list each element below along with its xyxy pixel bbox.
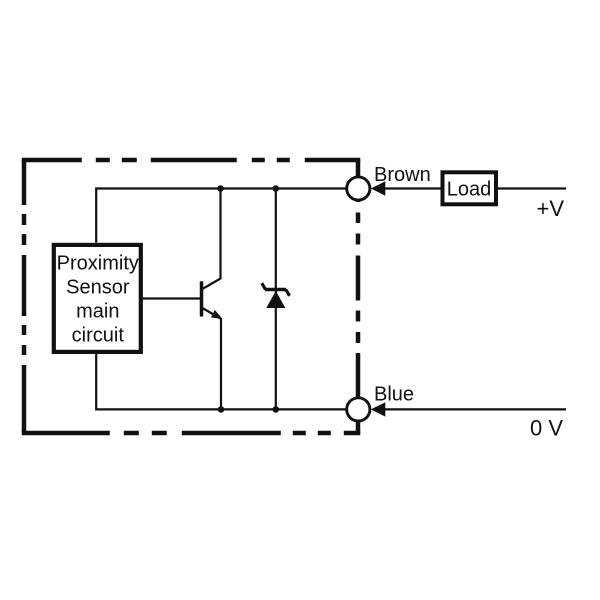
sensor boundary top side: [22, 158, 361, 163]
proximity sensor main circuit box: [54, 245, 141, 352]
transistor Q1 emitter: [202, 308, 222, 410]
wire: box bottom to 0V rail: [96, 354, 347, 410]
arrow into Blue terminal: [371, 402, 386, 416]
svg-text:Blue: Blue: [374, 384, 414, 406]
zener diode cathode bar: [265, 288, 286, 292]
svg-text:Proximity: Proximity: [57, 252, 139, 274]
junction dot bottom emitter: [218, 406, 225, 413]
transistor Q1 base bar: [200, 281, 204, 316]
zener diode cathode left tick: [262, 283, 266, 289]
svg-text:Sensor: Sensor: [66, 276, 130, 298]
svg-text:+V: +V: [537, 196, 565, 221]
svg-text:circuit: circuit: [72, 325, 125, 347]
terminal Brown: [347, 177, 370, 200]
wire: base of transistor: [142, 297, 202, 299]
svg-text:Load: Load: [447, 178, 492, 200]
svg-text:0 V: 0 V: [530, 416, 563, 441]
wire: +V to Load: [498, 187, 566, 189]
junction dot top collector: [217, 185, 224, 192]
arrow into Brown terminal: [371, 181, 386, 195]
wire: Load to Brown: [384, 187, 441, 189]
sensor boundary bottom side: [22, 431, 361, 436]
terminal Blue: [347, 398, 370, 421]
transistor Q1 emitter arrow: [211, 310, 223, 319]
load box: [443, 172, 497, 204]
zener diode cathode right tick: [286, 290, 290, 296]
wire: box top to +V rail: [96, 189, 347, 243]
transistor Q1 collector: [202, 189, 221, 290]
zener diode wire: [275, 189, 277, 410]
junction dot bottom zener: [273, 406, 280, 413]
sensor boundary left side: [22, 160, 27, 433]
junction dot top zener: [273, 185, 280, 192]
sensor boundary right side: [356, 160, 361, 433]
svg-text:main: main: [76, 301, 119, 323]
zener diode anode triangle: [266, 291, 285, 308]
wire: 0V line: [384, 408, 566, 410]
